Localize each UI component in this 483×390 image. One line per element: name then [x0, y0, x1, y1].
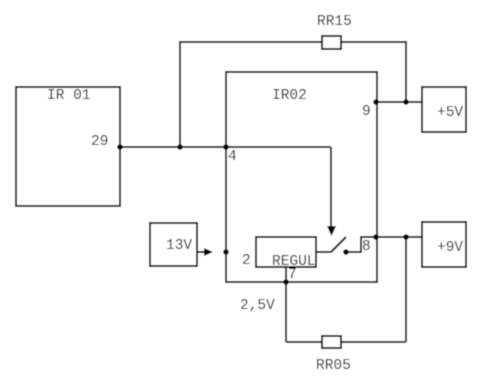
svg-text:9: 9 [362, 104, 371, 120]
resistor RR05 [322, 336, 341, 348]
svg-text:8: 8 [362, 239, 371, 255]
source box 13V [150, 223, 197, 266]
arrow down into switch [327, 226, 336, 236]
wire 13V arrow stem [197, 251, 205, 253]
IC IR01 box [16, 87, 120, 206]
wire RR05 bottom net [286, 341, 406, 343]
junction dot pin7 [283, 279, 289, 285]
svg-text:4: 4 [228, 149, 237, 165]
svg-text:IR02: IR02 [272, 88, 307, 104]
svg-text:+9V: +9V [437, 240, 463, 256]
junction dot node A [177, 144, 183, 150]
svg-text:RR15: RR15 [317, 14, 352, 30]
svg-text:REGUL: REGUL [272, 254, 316, 270]
junction dot pin2 [223, 249, 229, 255]
wire +9V net down to RR05 [405, 237, 407, 342]
wire REGUL output to switch [316, 251, 331, 253]
supply box +9V [422, 222, 466, 267]
wire top net from node A to RR15 and down to +5V [180, 42, 406, 147]
wire pin7 REGUL to RR05 [285, 267, 287, 342]
junction dot pin4 [223, 144, 229, 150]
wire pin29 net [120, 146, 331, 148]
junction dot +5V net [403, 99, 409, 105]
junction dot +9V net [403, 234, 409, 240]
IC IR02 box [226, 72, 377, 282]
supply box +5V [422, 87, 466, 132]
wire pin8 to +9V [376, 236, 422, 238]
svg-text:IR 01: IR 01 [47, 88, 91, 104]
junction dot pin8 [373, 234, 379, 240]
svg-text:29: 29 [91, 134, 108, 150]
svg-text:+5V: +5V [437, 105, 463, 121]
svg-text:13V: 13V [166, 238, 192, 254]
resistor RR15 [322, 36, 341, 49]
wire pin29 net drop to switch arrow [330, 147, 332, 226]
wire switch contact to pin8 [346, 237, 376, 252]
junction dot pin29 at IR01 [117, 144, 123, 150]
svg-text:RR05: RR05 [316, 358, 351, 374]
regulator REGUL box [256, 237, 316, 267]
junction dot switch contact [343, 249, 349, 255]
svg-text:2: 2 [242, 253, 251, 269]
switch S1 lever [331, 237, 346, 252]
arrow 13V into pin2 [204, 248, 213, 256]
wire pin9 to +5V [376, 101, 422, 103]
svg-text:2,5V: 2,5V [240, 298, 275, 314]
junction dot pin9 [373, 99, 379, 105]
